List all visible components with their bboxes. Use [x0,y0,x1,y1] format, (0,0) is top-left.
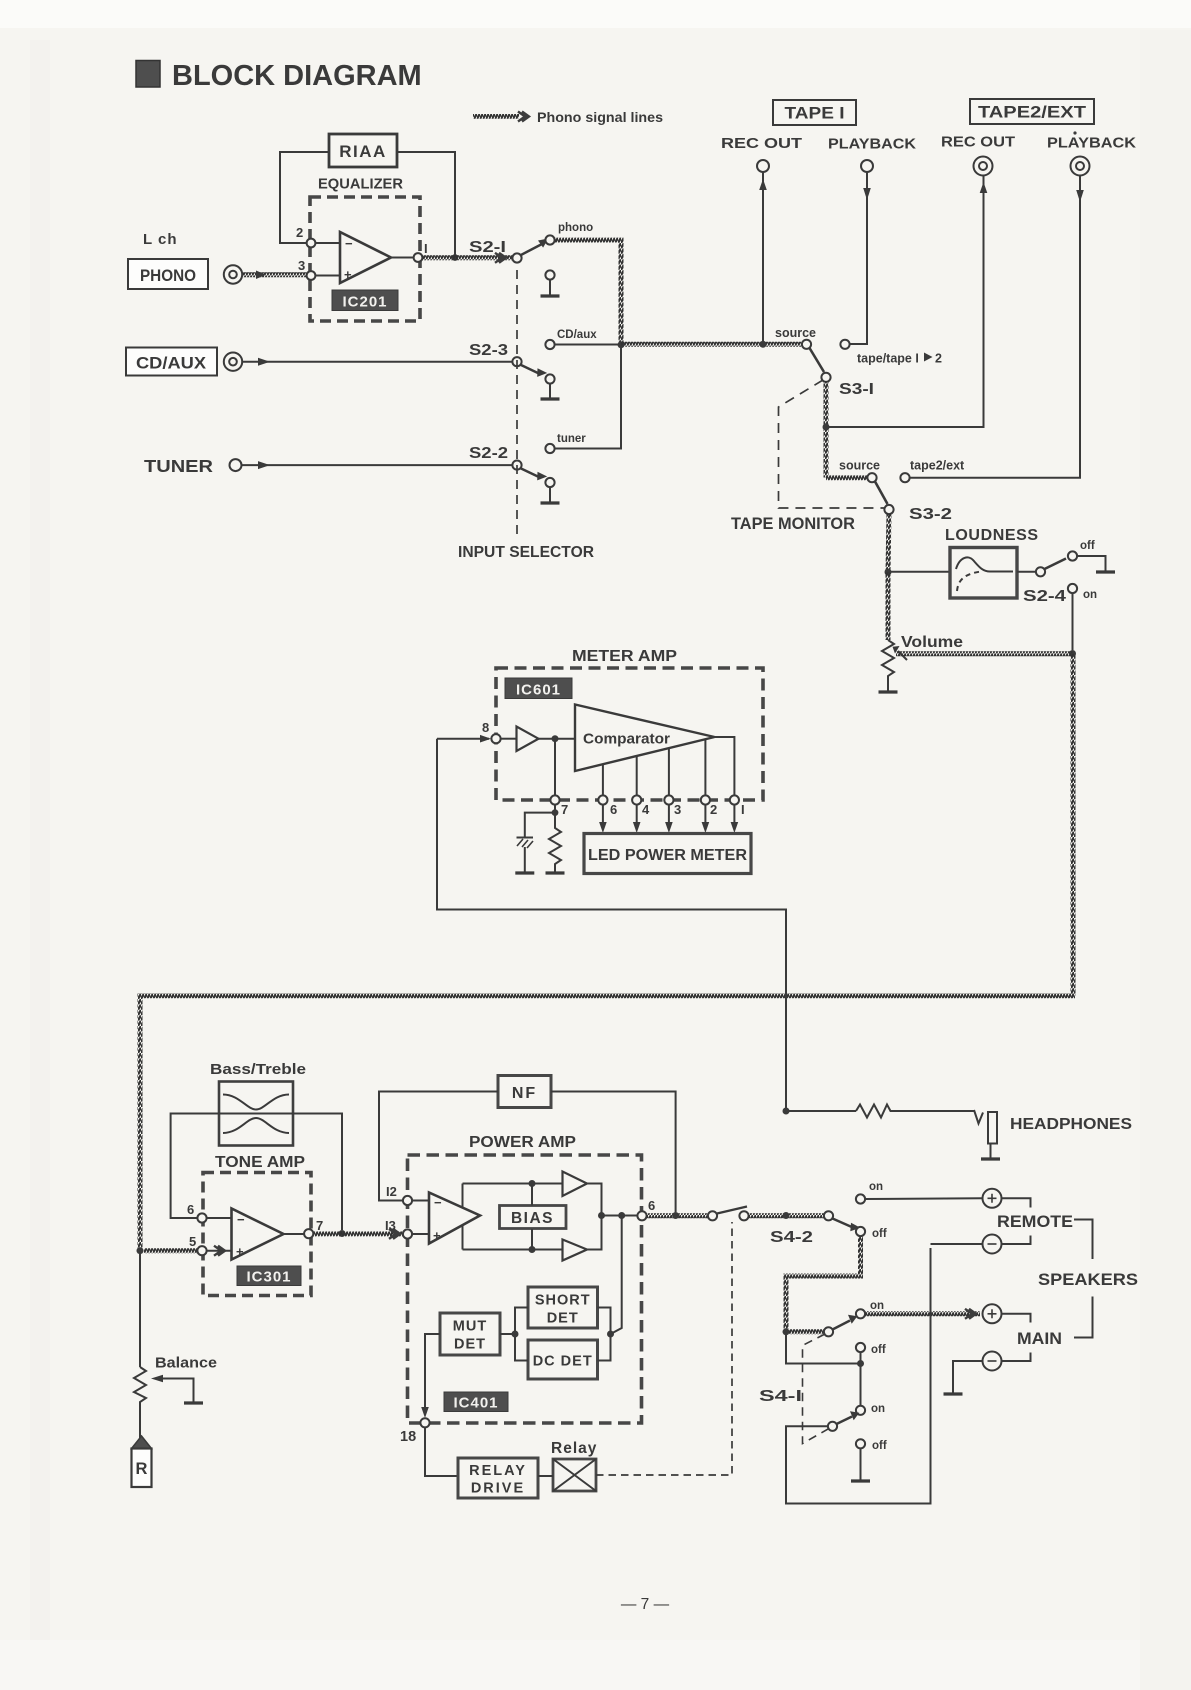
switch S3-1 arm [810,348,825,372]
wire tuner jack to S2-2 [242,464,513,466]
wire driver top rail [463,1183,563,1185]
wire RIAA right to output node [397,152,455,256]
svg-text:S4-I: S4-I [759,1388,802,1405]
svg-text:CD/AUX: CD/AUX [136,354,207,373]
switch S2-3 pivot [512,357,521,366]
svg-text:7: 7 [316,1218,323,1233]
svg-text:TAPE I: TAPE I [785,105,845,123]
switch S4-2 pivot [824,1211,833,1220]
switch S4-1 upper pivot [824,1327,833,1336]
svg-text:off: off [1080,540,1095,552]
wire NF feedback left to pin12 [379,1092,498,1201]
svg-text:on: on [871,1403,885,1415]
ground balance wiper [184,1402,203,1403]
junction rec out 2 tap [823,424,830,431]
wire tone input node down to balance [139,1253,141,1367]
svg-text:on: on [1083,589,1097,601]
svg-text:IC601: IC601 [516,682,561,699]
svg-text:S3-2: S3-2 [909,506,952,523]
IC301 dashed block frame [203,1173,311,1296]
svg-text:3: 3 [674,802,681,817]
svg-text:18: 18 [400,1429,416,1445]
wire relay drive to relay [538,1475,553,1477]
wire link up to off contact [860,1352,862,1363]
svg-text:phono: phono [558,222,593,234]
svg-text:DRIVE: DRIVE [471,1481,525,1497]
svg-text:L ch: L ch [143,231,178,248]
wire bias top stub [531,1184,533,1206]
svg-text:RIAA: RIAA [339,142,387,161]
headphone jack plug [974,1110,983,1124]
wire MAIN - to ground [953,1361,983,1393]
wire REMOTE - to speaker return [931,1243,983,1245]
svg-text:4: 4 [642,802,650,817]
pin 3 [664,795,673,804]
svg-text:Relay: Relay [551,1440,597,1457]
pin 2 [701,795,710,804]
contact on [1068,584,1077,593]
svg-text:IC401: IC401 [453,1395,498,1412]
switch S4-2 arm [833,1219,855,1229]
loudness response curve solid [956,557,1013,571]
wire meter amp feed long run [437,739,786,1108]
hatch arrow before pin13 [389,1229,400,1239]
LED POWER METER box [584,834,751,874]
contact tape/tape1-2 [840,340,849,349]
wire pin6 to relay contact (hatched) [647,1213,709,1218]
svg-text:IC301: IC301 [246,1269,291,1286]
hatch arrow into + input [214,1246,225,1256]
svg-text:TONE AMP: TONE AMP [215,1154,305,1171]
wire off contact to ground [1077,556,1106,571]
svg-text:6: 6 [648,1198,655,1213]
wire comparator tap to pin2 [704,739,706,800]
svg-text:DET: DET [454,1337,486,1353]
contact cd/aux [545,340,554,349]
svg-text:METER AMP: METER AMP [572,648,677,665]
svg-text:DET: DET [547,1311,579,1327]
svg-text:6: 6 [187,1202,194,1217]
svg-text:−: − [434,1195,442,1210]
title square [136,61,160,88]
wire junction to rec out 2 jack [826,176,984,427]
resistor R-meter [549,813,561,872]
wire jack to ground [990,1144,992,1159]
svg-text:TUNER: TUNER [144,456,213,476]
hatch arrow before MAIN + [965,1309,976,1319]
wire phono jack to pin3 (hatched) [243,272,307,277]
detector SHORT DET box [528,1287,598,1328]
svg-text:Comparator: Comparator [583,731,670,748]
wire pin12 to - input [412,1200,429,1202]
jack rec out tape1 [757,160,769,172]
svg-text:Balance: Balance [155,1355,217,1372]
svg-text:tape2/ext: tape2/ext [910,459,965,473]
filter NF box [498,1076,551,1108]
wire tone output to power amp pin13 (hatched) [314,1231,404,1236]
svg-text:TAPE MONITOR: TAPE MONITOR [731,515,855,533]
arrow on tuner wire [258,461,270,469]
jack playback tape2 [1071,157,1090,176]
junction bias bottom [529,1246,536,1253]
terminal REMOTE - [983,1235,1002,1254]
wire MUT DET to detectors [500,1333,515,1335]
junction bias top [529,1180,536,1187]
relay K1 box with X [553,1459,596,1491]
resistor RIAA box [329,134,397,167]
wire bias bottom stub [531,1229,533,1250]
svg-text:S2-2: S2-2 [469,445,508,462]
IC401 label [444,1392,508,1412]
wire driver bottom rail [463,1249,563,1251]
potentiometer balance resistor [134,1367,146,1438]
wire pin2 to op-amp inverting input [311,242,340,244]
pin 2 [307,239,316,248]
driver loop left vertical [462,1184,464,1250]
svg-text:3: 3 [298,258,305,273]
IC401 dashed block frame [408,1155,642,1423]
arrow on cd/aux wire [258,358,270,366]
buffer amp triangle [517,727,539,752]
wire phono contact to bus corner (hatched) [555,240,622,345]
pin 12 [403,1196,412,1205]
svg-text:−: − [345,236,353,251]
switch S3-1 pivot [821,373,830,382]
contact S4-1 lower on [856,1406,865,1415]
contact mute + ground (S2-1) [545,270,554,279]
switch S4-1 upper arm [833,1321,851,1330]
connector R channel [132,1436,152,1449]
svg-text:REMOTE: REMOTE [997,1213,1073,1231]
wire merge to pin6 [602,1215,638,1217]
wire loudness node down to volume pot (hatched) [886,572,891,640]
connector PHONO box [128,259,208,289]
wire to source contact of S3-2 (hatched) [826,475,868,480]
svg-text:on: on [869,1181,883,1193]
comparator triangle [575,705,715,772]
junction tone input [137,1247,144,1254]
relay contact arm (open) [717,1207,747,1214]
hatch arrow decoration before S2-1 [495,253,506,263]
svg-text:S4-2: S4-2 [770,1229,813,1246]
wire comparator output to pin1 [715,737,735,800]
terminal MAIN + [983,1304,1002,1323]
contact S2-4 common [1036,567,1045,576]
junction loudness tap [885,569,892,576]
wire comparator tap to pin6 [602,764,604,800]
dashed link TAPE MONITOR gang [779,380,886,508]
wire volume wiper to S2-4 node (hatched) [896,651,1073,656]
pin 6 [598,795,607,804]
contact off [1068,551,1077,560]
wire contact B to S4-2 pivot (hatched) [749,1213,824,1218]
svg-text:S2-I: S2-I [469,239,506,256]
wire op-amp output to pin7 [284,1233,305,1235]
dashed line input selector gang [516,270,518,536]
filter Bass/Treble box [219,1082,293,1146]
svg-text:I3: I3 [385,1218,396,1233]
pin 7 [550,795,559,804]
detector MUT DET box [440,1313,500,1355]
switch S4-1 lower arm [837,1417,853,1425]
junction RIAA/output [452,254,459,261]
junction pin7 [552,809,559,816]
wire tape2/ext contact to playback2 jack [910,176,1081,478]
svg-text:MAIN: MAIN [1017,1330,1062,1348]
wire pin1 to S2-1 (hatched phono signal) [422,255,513,260]
svg-text:2: 2 [935,352,942,366]
contact mute + ground (S2-2) [545,478,554,487]
switch S2-1 arm [520,244,542,256]
pin 1 [730,795,739,804]
wire MUT DET left to pin18 [425,1334,440,1414]
ground volume [879,691,898,692]
wire tone feedback right [293,1114,342,1231]
wire bottom triangle out [587,1216,602,1250]
svg-text:tape/tape I: tape/tape I [857,352,919,366]
wire REMOTE + bracket [1002,1198,1031,1207]
wire tone feedback left [171,1114,219,1219]
contact S4-1 upper off [856,1343,865,1352]
junction output merge [598,1212,605,1219]
svg-text:MUT: MUT [453,1319,487,1335]
bass/treble bottom curve [223,1118,289,1133]
switch S3-2 arm [875,482,888,505]
svg-text:7: 7 [561,802,568,817]
svg-text:+: + [236,1244,244,1259]
svg-text:5: 5 [189,1234,196,1249]
pin 18 [420,1418,429,1427]
svg-text:tuner: tuner [557,433,586,445]
switch S2-1 pivot [512,253,521,262]
wire volume node down right side (hatched) [1071,654,1076,996]
pin 6 (IC401 output) [637,1211,646,1220]
wire pin7 tail [554,805,556,813]
wire bus to tape source contact (hatched) [621,342,803,347]
wire on contact down to volume wiper line [1072,593,1074,650]
contact S4-2 on [856,1194,865,1203]
contact S4-1 upper on [856,1309,865,1318]
pin 6 (IC301) [197,1213,206,1222]
connector TAPE 1 box [773,100,856,125]
contact S4-1 lower off + ground [856,1439,865,1448]
junction detectors left [512,1331,519,1338]
wire comparator tap to pin4 [636,756,638,800]
wire to SHORT DET left [515,1308,528,1335]
bracket MAIN to SPEAKERS [1074,1297,1093,1338]
op-amp U-IC201 triangle [340,232,391,283]
svg-text:source: source [775,326,816,340]
wire pin13 to + input [412,1233,429,1235]
svg-text:PLAYBACK: PLAYBACK [828,137,917,153]
wire MAIN + bracket [1002,1314,1031,1323]
svg-text:I2: I2 [386,1184,397,1199]
junction buffer output [552,735,559,742]
wire S4-1 feed to off/on link [786,1334,861,1364]
legend: phono signal line sample [473,114,519,119]
contact tuner [545,444,554,453]
wire junction to capacitor [525,813,555,837]
wire top triangle out [587,1184,602,1216]
op-amp U-IC301 triangle [232,1209,284,1260]
svg-text:Volume: Volume [901,634,963,651]
junction headphones tap [783,1108,790,1115]
jack tuner [230,459,242,471]
switch S3-2 pivot [884,505,893,514]
wire NF right to output node [551,1092,676,1213]
pin 3 [307,271,316,280]
bass/treble top curve [223,1095,289,1110]
detector DC DET box [528,1340,598,1379]
wire playback 1 down to contact [849,172,867,344]
svg-text:IC201: IC201 [342,294,387,311]
wire meter amp feed into pin 8 [437,738,489,740]
IC201 dashed block frame [310,197,420,321]
jack playback tape1 [861,160,873,172]
wire SHORT DET right [598,1308,611,1335]
junction off/on link [857,1360,864,1367]
wire cd/aux jack to S2-3 [243,361,514,363]
loudness response curve dashed [957,572,979,591]
IC301 label [237,1266,301,1286]
output transistor bottom triangle [563,1240,588,1261]
wire link down to lower on contact [860,1364,862,1406]
wire S4-1 on to MAIN + (hatched) [865,1311,980,1316]
pin 4 [632,795,641,804]
balance wiper arrow to ground [160,1379,194,1403]
junction volume node [1069,650,1076,657]
svg-text:on: on [870,1300,884,1312]
arrow on phono input wire [256,271,266,280]
svg-text:2: 2 [710,802,717,817]
wire junction to S4-1 pivot (hatched) [789,1329,824,1334]
svg-text:off: off [871,1344,886,1356]
switch S2-3 arm [520,365,541,375]
wire into pin 5 (hatched) [144,1248,198,1253]
wire RIAA feedback left (pin2 to RIAA) [280,152,329,243]
contact mute + ground (S2-3) [545,374,554,383]
svg-text:SPEAKERS: SPEAKERS [1038,1271,1138,1289]
junction detectors right [607,1331,614,1338]
wire pin7 vertical [554,739,556,800]
pin 5 (IC301) [197,1246,206,1255]
svg-text:2: 2 [296,225,303,240]
bracket REMOTE to SPEAKERS [1074,1220,1093,1260]
wire LOUDNESS to S2-4 contact [1017,571,1036,573]
wire DC DET right [598,1334,611,1361]
IC201 label [332,290,398,311]
wire headphones feed [786,1110,856,1112]
BIAS box [500,1206,567,1229]
wire S4-1 lower pivot to speaker return [786,1248,931,1504]
resistor headphones [856,1105,974,1118]
contact phono [545,235,554,244]
wire pin6 to inverting input [207,1217,232,1219]
wire comparator tap to pin3 [668,748,670,800]
wire rec out 1 down to bus [762,172,764,344]
junction NF tap [672,1212,679,1219]
svg-text:INPUT SELECTOR: INPUT SELECTOR [458,544,594,561]
dashed link relay to S4-2 [596,1222,732,1475]
legend arrow [518,112,529,122]
wire REMOTE - bracket [1002,1236,1031,1245]
wire op-amp output to pin1 [391,257,415,259]
svg-text:S3-I: S3-I [839,381,874,398]
svg-text:EQUALIZER: EQUALIZER [318,176,403,193]
capacitor C-meter [517,837,534,839]
op-amp U-IC401 triangle [429,1193,480,1244]
wire buffer to comparator [539,738,576,740]
svg-text:Phono signal lines: Phono signal lines [537,109,663,125]
wire pin8 to buffer [501,738,517,740]
svg-text:source: source [839,459,880,473]
svg-text:+: + [433,1228,441,1243]
svg-text:I: I [741,802,745,817]
svg-text:off: off [872,1440,887,1452]
jack phono (L) [224,265,242,283]
svg-text:6: 6 [610,802,617,817]
svg-text:REC OUT: REC OUT [721,136,802,152]
pin 7 (IC301) [304,1229,313,1238]
svg-text:R: R [136,1460,148,1478]
svg-text:8: 8 [482,720,489,735]
terminal MAIN - [983,1352,1002,1371]
potentiometer volume resistor [882,640,894,691]
svg-text:TAPE2/EXT: TAPE2/EXT [978,104,1086,122]
relay contact A [708,1211,717,1220]
svg-text:+: + [344,267,352,282]
connector CD/AUX box [126,348,217,376]
jack cd/aux [224,353,242,371]
wires pins to LED meter with arrows [602,805,604,824]
svg-text:DC DET: DC DET [533,1354,593,1370]
contact S4-2 off [856,1227,865,1236]
svg-text:Bass/Treble: Bass/Treble [210,1061,306,1078]
svg-text:PLAYBACK: PLAYBACK [1047,136,1137,152]
svg-text:off: off [872,1228,887,1240]
svg-text:NF: NF [512,1085,537,1102]
svg-text:S2-4: S2-4 [1023,588,1066,605]
wire tuner contact to bus junction [555,348,622,449]
pin 13 [403,1229,412,1238]
terminal REMOTE + [983,1189,1002,1208]
svg-text:S2-3: S2-3 [469,342,508,359]
wire pin3 to op-amp non-inverting input [311,275,340,277]
svg-text:LED POWER METER: LED POWER METER [588,847,747,864]
volume wiper arrow [898,651,907,660]
svg-text:SHORT: SHORT [535,1293,591,1309]
svg-text:REC OUT: REC OUT [941,135,1015,151]
wire S3-2 pivot down to loudness node (hatched) [888,513,889,572]
block RELAY DRIVE [458,1458,538,1498]
svg-text:HEADPHONES: HEADPHONES [1010,1116,1132,1133]
relay contact B [739,1211,748,1220]
svg-text:CD/aux: CD/aux [557,329,597,341]
junction tone output [339,1230,346,1237]
wire S3-1 pivot down (hatched) [824,381,829,478]
svg-text:RELAY: RELAY [469,1463,527,1479]
switch S4-1 lower pivot [828,1422,837,1431]
svg-text:BLOCK DIAGRAM: BLOCK DIAGRAM [172,60,422,92]
junction S4-1 feed [783,1328,790,1335]
svg-text:−: − [237,1212,245,1227]
switch S2-2 pivot [512,461,521,470]
wire pin18 to relay drive [425,1427,458,1476]
wire pin5 to + input [207,1250,232,1252]
dashed link S4-1 gang [803,1334,830,1444]
wire MAIN - bracket [1002,1353,1031,1362]
junction input bus [618,341,625,348]
